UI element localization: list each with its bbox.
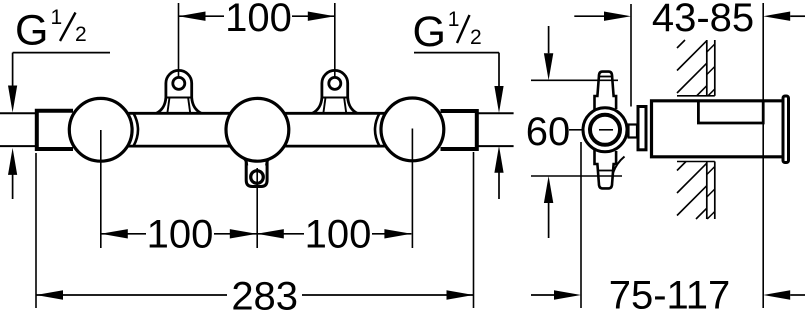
inlet pipe left end	[0, 113, 37, 146]
top lug (side view)	[595, 72, 617, 110]
outlet pipe right end	[477, 113, 514, 146]
extension line 283 left	[35, 153, 37, 308]
dimension 100 bottom-left and bottom-right	[101, 213, 412, 257]
shared extension line right (43-85 / 75-117)	[762, 3, 764, 308]
valve body circle 3	[381, 98, 444, 161]
G 1/2 leader left with thread arrows	[13, 53, 110, 199]
G 1/2 label right	[413, 8, 482, 56]
web bottom lug to plate	[613, 157, 625, 174]
bottom lug of middle valve	[243, 158, 271, 187]
union fitting left	[37, 111, 73, 149]
svg-text:100: 100	[147, 213, 214, 257]
hole ring of top-middle lug	[329, 77, 341, 89]
svg-text:43-85: 43-85	[652, 0, 754, 40]
center line valve 3	[411, 129, 413, 249]
stem nub between valve and plate	[629, 125, 638, 138]
svg-text:G: G	[413, 8, 446, 56]
G 1/2 label left	[15, 6, 87, 55]
wall masonry hatch upper	[677, 40, 707, 96]
union fitting right	[441, 111, 477, 149]
svg-text:G: G	[15, 7, 48, 55]
svg-text:2: 2	[75, 23, 87, 46]
valve front circle (side view)	[583, 108, 627, 152]
svg-text:1: 1	[448, 8, 460, 31]
wall cut edge upper	[677, 95, 715, 97]
mounting plate (side view)	[638, 107, 646, 150]
wall surface lines lower	[706, 162, 708, 220]
mounting lug top-left (front view)	[156, 70, 201, 113]
housing inner step	[698, 102, 763, 123]
rough-in housing body	[652, 101, 782, 157]
collar arc right of valve 1	[134, 113, 139, 146]
extension line 283 right	[473, 152, 475, 308]
center line valve 1	[100, 130, 102, 248]
extension line 43-85 left	[630, 4, 632, 107]
wall finish-layer ticks lower	[707, 167, 715, 220]
svg-text:283: 283	[231, 274, 298, 311]
mounting lug top-middle (front view)	[312, 70, 357, 113]
bottom lug (side view)	[595, 150, 617, 188]
bottom lug collar line	[599, 170, 613, 172]
svg-text:60: 60	[526, 110, 571, 154]
svg-text:100: 100	[225, 0, 292, 40]
dimension 100 top	[179, 0, 335, 40]
center line valve 2	[256, 168, 258, 248]
manifold bar segment between valve 2 and valve 3	[283, 113, 388, 146]
wall finish-layer ticks upper	[707, 44, 715, 96]
collar arc left of valve 3	[375, 113, 380, 146]
center dash in valve	[599, 129, 613, 131]
dimension 75-117	[531, 274, 805, 311]
G 1/2 leader right with thread arrows	[414, 53, 499, 199]
extension line 75-117 left	[580, 142, 582, 308]
dimension 60	[526, 26, 582, 238]
svg-text:75-117: 75-117	[609, 274, 731, 311]
extension line 60 bottom	[531, 175, 622, 177]
svg-text:100: 100	[305, 213, 372, 257]
valve body circle 1	[69, 98, 132, 161]
hole ring of top-left lug	[173, 77, 185, 89]
extension line top lug 2	[334, 3, 336, 77]
wall masonry hatch lower	[677, 162, 707, 220]
wall cut edge lower	[677, 161, 715, 163]
valve body circle 2	[226, 98, 289, 161]
end flange	[783, 96, 789, 163]
wall surface lines upper	[706, 40, 708, 96]
extension line top lug 1	[178, 3, 180, 77]
manifold bar segment between valve 1 and valve 2	[126, 113, 233, 146]
svg-text:2: 2	[470, 26, 482, 49]
dimension 43-85	[574, 0, 805, 40]
svg-text:1: 1	[51, 6, 63, 29]
valve inner ring (side view)	[590, 115, 620, 145]
dimension 283	[36, 274, 474, 311]
extension line 60 top	[531, 79, 618, 81]
